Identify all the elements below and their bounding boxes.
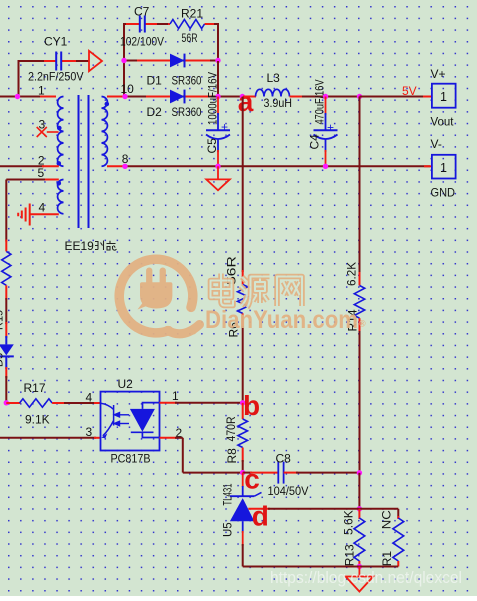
wire pin10 rail [107,96,125,98]
svg-text:®: ® [190,327,198,338]
capacitor C7 [139,16,141,33]
node junction C4 top [323,94,328,99]
svg-text:9.1K: 9.1K [25,412,50,426]
node junction R14 bottom [357,470,362,475]
svg-text:EE19: EE19 [65,239,95,253]
svg-text:5.6K: 5.6K [341,510,355,535]
ground symbol secondary [217,166,219,179]
U2 light arrows [114,413,129,426]
svg-text:3: 3 [86,425,93,439]
svg-text:470uF/16V: 470uF/16V [313,80,327,125]
svg-text:Vout: Vout [431,115,455,129]
svg-text:C4: C4 [308,134,322,150]
inductor L3 [243,96,256,98]
watermark plug icon [138,268,173,310]
wire C4 pin lower [325,139,327,152]
wire aux branch lower [5,356,7,369]
pin3 no-connect X [37,127,47,137]
wire CY1 left drop [18,60,20,97]
diode D5 [0,344,14,355]
svg-text:4: 4 [86,390,93,404]
node junction C4 bottom [323,164,328,169]
wire d rail to R13 [358,509,360,519]
resistor R21 [170,20,205,29]
port 1 box upper [432,84,456,108]
wire R13 bottom [358,561,360,567]
node c junction [240,470,245,475]
wire 5V branch to R14 [359,97,361,275]
svg-text:5: 5 [38,166,45,180]
resistor R1 [393,518,404,561]
wire CY1 top segment [19,60,47,62]
wire node a to R6 [242,97,244,273]
U2 phototransistor [101,403,114,436]
diode D2 [170,90,185,104]
wire snubber top rail [124,23,140,25]
svg-text:D2: D2 [147,105,163,119]
resistor R19 unlabeled [2,251,11,285]
node junction pin8 [122,164,127,169]
wire pin8 ground rail [107,165,126,167]
wire bottom anode rail [243,566,399,568]
svg-text:R1: R1 [380,551,394,567]
wire aux branch upper [5,180,7,242]
node junction 5V branch [357,94,362,99]
svg-text:a: a [238,86,254,117]
svg-text:5V: 5V [402,84,417,98]
svg-text:4: 4 [39,200,46,214]
ground symbol bottom [358,567,360,577]
resistor R6 [238,285,248,314]
svg-text:+: + [327,121,334,135]
wire R1 bottom [397,561,399,567]
watermark DianYuan logo ring [119,259,199,337]
svg-text:10: 10 [121,82,135,96]
transformer polarity dots [57,126,62,131]
wire R8 to node c [242,448,244,463]
wire node c to C8 [243,472,252,474]
wire C5 pin upper [217,97,219,116]
svg-text:U5: U5 [222,522,234,537]
transformer label CJK woshi [95,241,117,251]
wire C5 pin lower [217,139,219,152]
svg-text:DianYuan.com: DianYuan.com [205,306,358,334]
wire snubber left vertical [123,23,125,97]
wire R6 to node b [242,313,244,328]
wire aux branch mid [5,285,7,300]
wire c to d link [358,473,360,509]
node junction pin1 [15,94,20,99]
transformer secondary winding 10-8 [102,97,108,167]
diode D1 [170,54,185,68]
wire TL431 ref to d rail [248,508,270,510]
wire snubber right vertical [217,23,219,62]
svg-text:+: + [221,120,228,134]
svg-text:V-: V- [431,137,442,151]
wire pin2 rail [0,165,44,167]
resistor R8 [238,419,248,448]
watermark chinese characters dian yuan wang (outlined) [211,274,303,308]
wire R1 top stub [397,516,399,519]
node junction R13 bottom [357,564,362,569]
node junction D1 right [215,58,220,63]
node junction C5 bottom [215,164,220,169]
svg-text:TL431: TL431 [222,484,234,506]
svg-text:d: d [252,501,269,532]
svg-text:1: 1 [172,389,179,403]
svg-text:U2: U2 [118,377,134,391]
svg-text:R21: R21 [181,6,203,20]
svg-text:https://blog.csdn.net/qlexcel: https://blog.csdn.net/qlexcel [270,569,462,587]
wire d rail to R1 [359,508,398,510]
svg-text:D5: D5 [0,353,6,367]
capacitor C5 [206,129,230,131]
wire opto pin2 elbow [160,437,178,439]
svg-text:102/100V: 102/100V [120,34,164,48]
wire C4 pin upper [325,97,327,116]
svg-text:NC: NC [379,510,393,529]
capacitor C4 [314,129,338,131]
svg-text:GND: GND [431,186,456,200]
wire pin4 stub [30,213,59,215]
svg-text:6.2K: 6.2K [344,262,358,286]
transistor U5 TL431 [230,495,254,497]
node a junction [240,94,245,99]
wire opto pin3 rail [0,437,96,439]
resistor R14 [354,286,364,319]
svg-text:1: 1 [440,161,447,175]
svg-text:56R: 56R [182,31,198,45]
wire opto pin1 to node b [160,402,178,404]
power ground at pin 4 [18,204,30,226]
node junction R17 [4,400,9,405]
svg-text:R17: R17 [24,381,46,395]
svg-text:R19: R19 [0,310,6,330]
svg-text:V+: V+ [431,67,446,81]
port 1 box lower [432,155,456,179]
svg-text:®: ® [359,319,366,329]
svg-text:3.9uH: 3.9uH [264,96,293,110]
svg-text:L3: L3 [267,71,281,85]
svg-text:b: b [243,390,260,421]
wire node b to R8 [242,403,244,419]
node junction C5 top [215,94,220,99]
capacitor CY1 [55,52,57,71]
wire 5V to port [360,96,426,98]
wire L3 to ports [302,96,360,98]
svg-text:CY1: CY1 [44,34,68,48]
resistor R17 [6,402,20,404]
wire TL431 anode [242,521,244,533]
svg-text:C7: C7 [134,4,150,18]
svg-text:SR360: SR360 [172,105,202,119]
svg-text:470R: 470R [224,416,238,441]
svg-text:R13: R13 [342,544,356,566]
transformer core [78,95,80,228]
svg-text:PC817B: PC817B [111,451,151,465]
node junction d rail [357,506,362,511]
svg-text:1: 1 [440,90,447,104]
capacitor C8 [277,462,279,484]
wire R14 to node c rail [359,318,361,333]
svg-text:C5: C5 [205,138,219,154]
wire node c to TL431 [242,473,244,487]
wire D1 row [124,60,218,62]
svg-text:D1: D1 [147,73,163,87]
svg-text:104/50V: 104/50V [268,484,309,498]
svg-text:SR360: SR360 [172,73,202,87]
node junction pin10 [122,94,127,99]
node junction D1 left [121,58,126,63]
wire C8 to R14 branch [284,472,298,474]
svg-text:c: c [244,463,260,494]
wire C5 vertical top [217,61,219,98]
svg-text:1: 1 [38,83,45,97]
svg-text:2.2nF/250V: 2.2nF/250V [28,70,84,84]
U2 LED [143,403,160,409]
wire pin1 rail [0,96,42,98]
no-ERC arrow marker [89,51,102,71]
wire pin5 [43,179,59,181]
transformer aux winding 5-4 [58,180,64,214]
svg-text:C8: C8 [276,451,292,465]
op-amp U2 opto box [101,392,160,451]
transformer primary winding 1-2 [58,97,64,167]
resistor R13 [354,518,365,561]
svg-text:R8: R8 [225,448,239,464]
svg-text:1000uF/16V: 1000uF/16V [206,72,220,125]
node b junction [240,400,245,405]
